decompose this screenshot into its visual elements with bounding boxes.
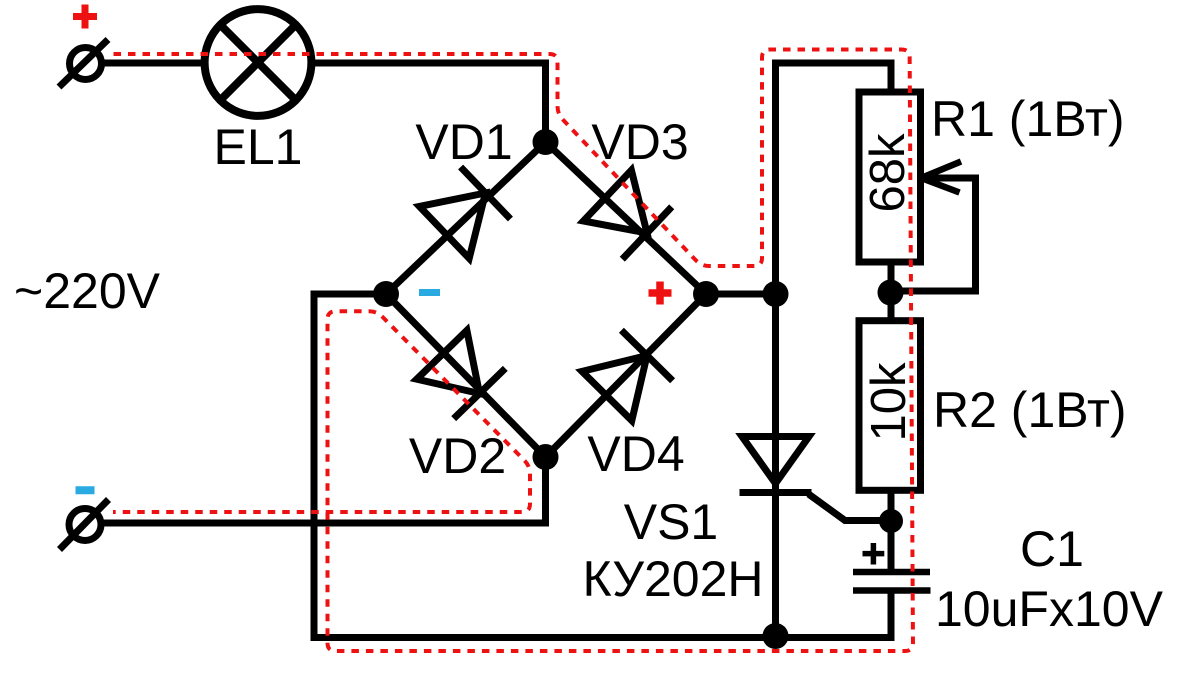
wire bridge arm VD2 xyxy=(386,294,546,457)
polarity - bottom terminal xyxy=(76,486,95,494)
wire plus node row xyxy=(706,291,776,298)
resistor R2 body xyxy=(859,321,921,491)
node gate / R2 bottom xyxy=(879,509,903,533)
diode VD1 xyxy=(419,193,485,258)
capacitor C1 plates xyxy=(853,569,930,576)
polarity + top terminal xyxy=(73,5,97,29)
polarity - bridge output xyxy=(419,289,440,296)
node right xyxy=(693,281,719,307)
node left xyxy=(373,281,399,307)
wire thyristor column xyxy=(772,294,779,638)
capacitor polarity plus xyxy=(863,543,885,565)
wire R2 bottom to capacitor top xyxy=(888,490,895,572)
wire bottom-left: - terminal to bridge bottom node xyxy=(103,457,546,523)
node R1 bottom xyxy=(878,280,904,306)
red dashed current path xyxy=(113,50,913,652)
node thyristor top xyxy=(763,281,789,307)
svg-text:VD2: VD2 xyxy=(409,428,506,484)
diode VD2 xyxy=(417,330,480,393)
lamp EL1 xyxy=(205,9,312,116)
svg-text:EL1: EL1 xyxy=(214,119,303,175)
polarity + bridge output xyxy=(649,282,672,305)
wire bridge arm VD4 xyxy=(546,294,707,457)
svg-text:VD3: VD3 xyxy=(591,114,688,170)
svg-text:КУ202Н: КУ202Н xyxy=(583,551,764,607)
wire plus node up and over to R1 top xyxy=(776,63,892,294)
diode VD4 xyxy=(582,356,647,421)
svg-text:10k: 10k xyxy=(862,362,916,442)
wire bridge arm VD1 xyxy=(386,142,546,294)
svg-text:C1: C1 xyxy=(1020,521,1084,577)
wire left loop: left node to bottom rail to capacitor column xyxy=(314,294,891,638)
wire R1 bottom to R2 top xyxy=(888,262,895,321)
node bottom rail xyxy=(763,623,789,649)
thyristor gate wire xyxy=(809,494,892,521)
node top xyxy=(533,129,559,155)
wire top: + terminal to lamp to bridge top node xyxy=(104,63,546,142)
resistor R1 body xyxy=(859,92,921,262)
svg-text:VS1: VS1 xyxy=(624,494,719,550)
terminal + (top left) xyxy=(70,48,102,80)
diode VD3 xyxy=(583,170,647,233)
wire wiper return of R1 xyxy=(891,178,976,291)
svg-text:VD4: VD4 xyxy=(587,426,684,482)
wire bridge arm VD3 xyxy=(546,142,707,294)
svg-text:68k: 68k xyxy=(861,133,915,213)
thyristor VS1 xyxy=(742,437,809,484)
svg-text:~220V: ~220V xyxy=(14,263,161,319)
svg-text:VD1: VD1 xyxy=(415,114,512,170)
svg-text:R1 (1Вт): R1 (1Вт) xyxy=(931,91,1125,147)
terminal - (bottom left) xyxy=(69,509,101,541)
svg-text:10uFx10V: 10uFx10V xyxy=(935,581,1164,637)
wiper arrow of R1 xyxy=(921,162,961,193)
node bottom xyxy=(533,444,559,470)
svg-text:R2 (1Вт): R2 (1Вт) xyxy=(933,382,1127,438)
